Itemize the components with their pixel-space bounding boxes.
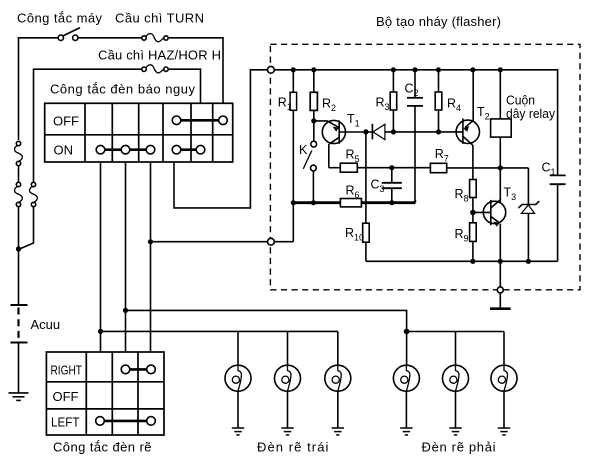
node rail C2 [412,67,417,72]
resistor R8 [470,180,477,213]
node rail R9 [470,259,475,264]
svg-text:Cầu chì HAZ/HOR H: Cầu chì HAZ/HOR H [98,48,221,63]
node R6 C3 [389,200,394,205]
resistor R7 [392,163,529,172]
node R5 C3 R7 [389,165,394,170]
wire C2 bottom joins R6 line [414,200,416,203]
fusible link F1 on battery wire [15,141,23,165]
resistor R1 [290,70,297,242]
transistor T3 [473,200,506,261]
svg-text:LEFT: LEFT [51,415,80,430]
node rail R3 [391,67,396,72]
ground flasher [490,293,511,308]
node rail R1 [291,67,296,72]
wire col2 down [100,162,102,352]
ground battery [9,393,29,401]
node right bus junction [404,329,410,335]
wire [78,37,142,39]
node R8 R9 T3 base [470,210,476,216]
wire top rail [274,70,557,176]
wire col5 to flasher input [174,70,268,208]
fuse TURN [142,34,168,42]
svg-text:OFF: OFF [53,389,79,404]
svg-text:ON: ON [54,143,74,158]
resistor R6 [340,199,361,207]
svg-text:Công tắc đèn rẽ: Công tắc đèn rẽ [53,440,152,455]
resistor R3 [390,70,397,132]
node R6 left R1 [291,200,296,205]
terminal input bottom [268,238,275,245]
svg-text:Bộ tạo nháy (flasher): Bộ tạo nháy (flasher) [376,14,501,29]
svg-text:Công tắc đèn báo nguy: Công tắc đèn báo nguy [50,82,196,97]
wire left lamps bus [101,330,338,332]
node rail zener [526,259,531,264]
switch K [303,141,316,202]
contact RIGHT row [121,365,155,374]
fusible link F2 [15,182,23,206]
resistor R5 [329,163,392,172]
contact ON row c2-c4 [96,145,155,154]
node rail T3 [498,259,503,264]
hazard switch table frame [45,103,233,162]
node col3 junction [123,308,128,313]
contact LEFT row [96,417,156,426]
svg-text:RIGHT: RIGHT [51,363,83,378]
lamp L4 [393,332,419,435]
wire base line T1 to diode [339,131,372,133]
flasher dashed box [270,44,580,289]
wire right lamps bus [407,331,504,333]
resistor R2 [310,70,317,142]
terminal input top [268,66,275,73]
wire haz branch join [20,207,34,249]
svg-text:Cầu chì TURN: Cầu chì TURN [115,11,204,26]
node rail relay [498,67,503,72]
svg-text:OFF: OFF [53,113,79,128]
capacitor C1 [550,175,566,261]
node diode R10 branch [363,129,368,134]
resistor R10 [363,132,370,261]
wire to hazard table col7 [168,38,223,104]
turn switch table frame [46,352,164,435]
wire battery to ground [18,343,20,393]
wire haz feed left [34,69,142,182]
node rail R4 [436,67,441,72]
battery Acuu [11,305,28,343]
zener diode DZ [519,168,540,261]
wire output to ground [499,261,501,286]
transistor T2 [456,70,479,180]
fusible link F3 [30,182,38,206]
resistor R9 [470,213,477,262]
transistor T1 [314,120,346,167]
svg-text:Đèn rẽ phải: Đèn rẽ phải [422,440,496,455]
capacitor C2 [407,70,423,203]
wire [18,166,20,182]
capacitor C3 [382,168,402,203]
wire R6 line thick [293,201,415,204]
svg-text:Acuu: Acuu [31,317,61,332]
wire col3 down [125,162,127,352]
fuse HAZ/HOR [142,65,168,73]
wire battery branch [18,207,20,305]
svg-text:Đèn rẽ trái: Đèn rẽ trái [257,440,329,455]
contact ON row c5-c6 [172,145,205,154]
node relay R7 T3 [498,165,503,170]
node R2 bottom [311,118,316,123]
wire top feed left [19,38,58,140]
node R6 K [311,200,316,205]
wire right lamps feed [126,310,407,331]
terminal output [497,287,503,293]
wire col4 down [150,162,152,352]
relay coil (Cuon day relay) [491,70,512,202]
lamp L3 [325,331,351,435]
node col2 junction [98,329,103,334]
switch ignition (Cong tac may) [58,28,80,41]
node rail R2 [311,67,316,72]
node base line R4 [436,129,441,134]
lamp L6 [491,332,517,435]
resistor R4 [435,70,442,132]
svg-text:K: K [299,143,308,157]
wire bottom rail [366,260,558,262]
lamp L5 [443,332,469,435]
lamp L1 [225,331,251,435]
wire to hazard table col6 [168,69,200,103]
node col4 junction [148,239,153,244]
node battery junction [16,246,21,251]
svg-text:Công tắc máy: Công tắc máy [17,11,103,26]
contact OFF row c5-c7 [172,116,227,125]
wire lower terminal to R6 [274,241,293,243]
lamp L2 [275,331,301,435]
node rail T2 [470,67,475,72]
node diode R3 [391,129,396,134]
svg-text:dây relay: dây relay [506,106,555,121]
diode D1 [372,124,463,140]
wire col4 to flasher lower terminal [151,241,268,243]
